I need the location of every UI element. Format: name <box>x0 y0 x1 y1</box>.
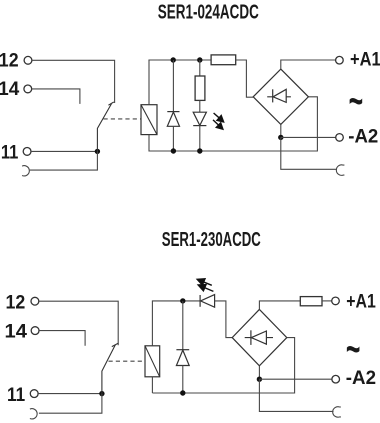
node rail dot B <box>197 57 202 62</box>
wire coil top lead <box>152 301 200 346</box>
wire bridge right to bottom rail <box>152 338 294 393</box>
wire top rail <box>148 59 211 61</box>
wire bottom rail <box>149 97 317 151</box>
switch lever <box>97 104 111 151</box>
wire bridge top to +A1 <box>281 60 336 69</box>
svg-text:11: 11 <box>1 142 19 164</box>
diode D1 (parallel to coil) <box>172 60 174 112</box>
terminal circle 12 <box>31 297 39 305</box>
dashed actuation link <box>104 118 141 120</box>
terminal circle 12 <box>24 56 32 64</box>
dashed actuation link <box>109 360 145 362</box>
wire 12 to contact <box>39 301 118 345</box>
terminal circle 11 <box>23 148 31 156</box>
wire -A2 node to plug arc <box>259 379 333 411</box>
terminal circle -A2 <box>336 134 344 142</box>
bridge diode symbol <box>267 96 291 98</box>
bridge rectifier B2 <box>232 309 287 365</box>
plug arc terminal A2 <box>336 165 344 176</box>
LED light arrows <box>213 113 224 129</box>
terminal circle 14 <box>24 85 32 93</box>
node rail dot A <box>171 57 176 62</box>
node -A2 junction dot <box>257 377 262 382</box>
terminal circle +A1 <box>332 297 340 305</box>
wire bridge top to resistor <box>259 301 300 310</box>
svg-text:12: 12 <box>0 49 19 71</box>
terminal circle +A1 <box>336 56 344 64</box>
terminal circle 14 <box>31 327 39 335</box>
wire bridge bottom to -A2 <box>258 366 260 379</box>
svg-text:+A1: +A1 <box>346 291 376 312</box>
relay coil K1 <box>141 105 157 135</box>
wire 14 to contact <box>32 89 80 104</box>
node top rail dot <box>180 298 185 303</box>
wire resistor to +A1 <box>322 300 332 302</box>
LED D2 <box>199 100 201 112</box>
wire coil bottom lead <box>151 377 153 393</box>
svg-text:-A2: -A2 <box>348 126 378 147</box>
wire 14 to contact <box>39 331 85 346</box>
plug arc terminal 11 <box>30 409 37 419</box>
LED D4 (horizontal) <box>199 295 201 307</box>
relay coil K2 <box>145 346 160 377</box>
wire bridge bottom to -A2 <box>280 124 282 137</box>
node bottom rail dot B <box>197 148 202 153</box>
svg-text:14: 14 <box>0 78 19 100</box>
LED light arrows <box>197 279 213 292</box>
svg-text:11: 11 <box>7 384 25 406</box>
svg-text:12: 12 <box>6 292 26 314</box>
node -A2 junction dot <box>278 135 283 140</box>
svg-text:~: ~ <box>349 77 364 124</box>
wire -A2 node to plug arc <box>281 137 337 169</box>
contact tick 12 <box>108 102 113 105</box>
svg-text:+A1: +A1 <box>350 50 380 71</box>
terminal circle -A2 <box>332 375 340 383</box>
plug arc terminal 11 <box>22 166 29 176</box>
node bottom rail dot A <box>171 148 176 153</box>
svg-text:SER1-024ACDC: SER1-024ACDC <box>158 2 259 24</box>
plug arc terminal A2 <box>333 407 341 418</box>
svg-text:SER1-230ACDC: SER1-230ACDC <box>162 229 261 251</box>
wire 12 to contact <box>32 60 115 103</box>
node common junction dot <box>99 391 104 396</box>
bridge diode symbol <box>245 337 273 339</box>
wire 11 to common node <box>31 150 97 152</box>
wire arc to common node <box>30 151 98 170</box>
wire resistor to bridge <box>236 60 254 97</box>
contact tick 12 <box>112 343 119 347</box>
terminal circle 11 <box>30 390 38 398</box>
resistor R2 (vertical, LED branch) <box>199 60 201 76</box>
node bottom rail dot <box>180 390 185 395</box>
svg-text:-A2: -A2 <box>346 368 376 389</box>
diode D3 (parallel to coil) <box>182 301 184 350</box>
resistor R1 (series, horizontal) <box>211 55 236 65</box>
resistor R3 (series, horizontal) <box>300 297 322 306</box>
switch lever <box>102 345 115 394</box>
wire LED to bridge left <box>215 301 233 338</box>
node common junction dot <box>95 149 100 154</box>
svg-text:14: 14 <box>5 321 28 343</box>
wire arc to common node <box>39 394 102 414</box>
wire 11 to common node <box>38 393 102 395</box>
wire coil top lead <box>148 60 150 105</box>
bridge rectifier B1 <box>253 69 308 124</box>
svg-text:~: ~ <box>346 325 361 372</box>
